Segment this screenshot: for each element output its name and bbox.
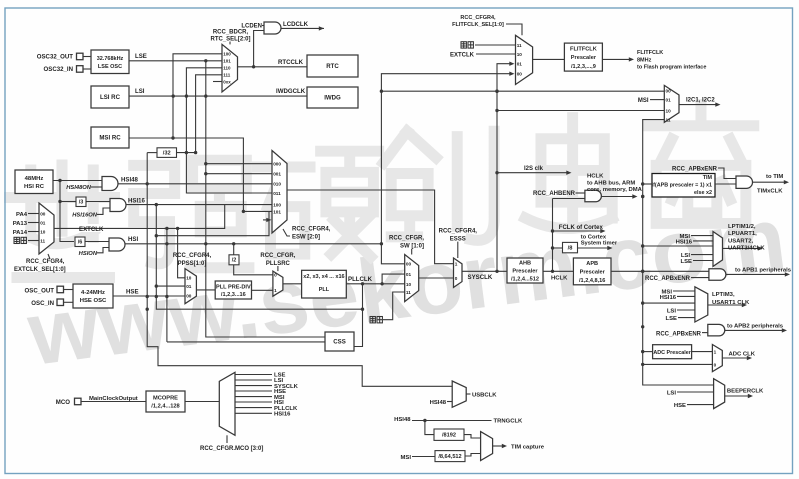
svg-text:00: 00	[186, 294, 192, 299]
wire prediv out	[252, 289, 273, 291]
svg-text:/3: /3	[79, 200, 84, 206]
wire riser HSI48 down-jog to bottom bus	[147, 153, 452, 387]
wire to Cortex timer	[578, 234, 618, 250]
wire V1 up	[381, 74, 511, 244]
wire RTC mux in 111 riser	[196, 75, 222, 153]
mux APB1 clocks	[643, 232, 723, 267]
svg-text:HSE: HSE	[126, 288, 139, 295]
oscillator LSI RC	[91, 86, 129, 108]
svg-text:11: 11	[666, 118, 671, 123]
gate AND APB2EN	[656, 324, 725, 337]
wire HSI16	[126, 198, 272, 207]
pin OSC32_OUT	[37, 53, 91, 60]
svg-text:/2: /2	[232, 258, 237, 264]
wire ESW in 001	[206, 173, 272, 175]
mux BEEPER	[667, 379, 725, 410]
svg-text:LSE: LSE	[135, 53, 147, 60]
svg-text:01: 01	[40, 220, 46, 225]
svg-text:100: 100	[223, 52, 231, 57]
svg-text:RCC_APBxENR: RCC_APBxENR	[645, 276, 691, 282]
oscillator HSE OSC	[73, 284, 113, 308]
wire HSI	[125, 236, 383, 245]
wire 864512 to mux	[465, 454, 481, 457]
svg-text:RCC_CFGR4,: RCC_CFGR4,	[292, 227, 331, 233]
wire PLLSRC out	[283, 283, 302, 285]
svg-text:FCLK of Cortex: FCLK of Cortex	[559, 225, 604, 231]
svg-text:/1,2,4...128: /1,2,4...128	[151, 404, 179, 410]
wire SW out to ESSS0	[419, 277, 454, 279]
svg-text:TIM: TIM	[703, 175, 713, 181]
wire MCOPRE to mux	[185, 401, 219, 403]
svg-text:Prescaler: Prescaler	[512, 269, 538, 275]
prescaler AHB	[507, 258, 543, 283]
svg-text:101: 101	[273, 209, 281, 214]
wire EXTCLK to FLITF10	[450, 52, 516, 58]
svg-text:LSI: LSI	[667, 391, 677, 397]
wire TRNGCLK	[394, 417, 523, 425]
divider /8,64,512	[401, 451, 465, 462]
wire ESW in 000 riser	[206, 61, 325, 337]
wire HSE to PPSS00	[184, 295, 186, 297]
mux TIM capture	[481, 432, 493, 461]
svg-text:HSI48: HSI48	[394, 417, 411, 423]
wire HCLK riser	[552, 199, 554, 272]
svg-text:/8192: /8192	[442, 433, 456, 439]
gate AND HSI16	[72, 199, 126, 219]
wire SYSCLK	[462, 270, 507, 282]
wire CSS input B	[167, 341, 325, 343]
svg-text:RCC_CFGR4,: RCC_CFGR4,	[173, 253, 212, 259]
wire APB out to right	[611, 270, 709, 272]
svg-text:HSI RC: HSI RC	[24, 184, 45, 190]
wire vertical to CSS B	[166, 228, 168, 342]
svg-text:110: 110	[223, 66, 231, 71]
wire step to ESW 101	[156, 211, 269, 235]
prescaler APB	[573, 258, 611, 285]
wire HSI48 feed	[53, 180, 102, 182]
svg-text:HCLK: HCLK	[587, 173, 604, 179]
svg-text:I2C1, I2C2: I2C1, I2C2	[686, 98, 715, 104]
svg-text:10: 10	[186, 276, 192, 281]
svg-text:USBCLK: USBCLK	[472, 392, 497, 398]
svg-text:HSI16ON: HSI16ON	[72, 213, 98, 219]
css CSS	[325, 332, 354, 351]
mux PLLSRC	[260, 253, 295, 296]
svg-text:MSI: MSI	[638, 98, 649, 104]
svg-text:RCC_BDCR,: RCC_BDCR,	[213, 30, 249, 36]
svg-text:System timer: System timer	[581, 241, 618, 247]
divider /6	[75, 237, 85, 247]
svg-text:10: 10	[666, 108, 672, 113]
svg-text:1: 1	[274, 288, 277, 293]
divider /3	[76, 197, 86, 207]
mux I2C	[664, 85, 679, 122]
svg-text:RTC: RTC	[326, 63, 339, 70]
svg-text:OSC32_OUT: OSC32_OUT	[37, 54, 74, 61]
svg-text:HSI48: HSI48	[121, 177, 139, 184]
mux SW	[389, 236, 424, 302]
wire /32 out to ESW 001 riser	[177, 152, 196, 154]
mux FLITFCLK_SEL	[452, 15, 532, 85]
wire TIMxCLK	[753, 174, 790, 194]
wire HSI48	[118, 177, 272, 184]
wire BEEPERCLK	[725, 389, 764, 399]
svg-text:00: 00	[517, 72, 523, 77]
svg-text:EXTCLK: EXTCLK	[79, 226, 104, 233]
svg-text:HSI16: HSI16	[676, 239, 693, 245]
svg-text:FLITFCLK: FLITFCLK	[570, 47, 597, 53]
wire ESW arrow input	[263, 219, 268, 221]
svg-text:LSE OSC: LSE OSC	[98, 64, 122, 70]
svg-text:000: 000	[273, 162, 281, 167]
mux ESSS	[439, 229, 478, 288]
svg-text:00: 00	[40, 211, 46, 216]
svg-text:111: 111	[223, 73, 231, 78]
svg-text:if(APB prescaler = 1) x1: if(APB prescaler = 1) x1	[652, 183, 712, 189]
svg-text:LPTIM1/2,: LPTIM1/2,	[728, 224, 756, 230]
pin OSC_OUT	[25, 286, 73, 294]
mux ESW	[272, 151, 331, 241]
svg-text:LCDEN: LCDEN	[241, 24, 262, 30]
pin OSC_IN	[31, 299, 73, 307]
svg-text:CSS: CSS	[333, 339, 346, 346]
svg-text:/6: /6	[78, 240, 83, 246]
mux PPSS	[173, 253, 212, 304]
mux APB2 clocks	[643, 287, 708, 322]
svg-text:EXTCLK_SEL[1:0]: EXTCLK_SEL[1:0]	[14, 267, 66, 273]
wire EXTCLK	[54, 205, 225, 233]
oscillator 48MHz HSI RC	[15, 170, 53, 194]
wire PLLCLK down to CSS out	[354, 284, 363, 347]
svg-text:00: 00	[406, 262, 412, 267]
svg-text:to Flash program interface: to Flash program interface	[637, 65, 706, 71]
svg-text:0xx: 0xx	[223, 79, 231, 84]
svg-text:LSI: LSI	[135, 88, 145, 95]
wire USBCLK	[466, 392, 497, 398]
svg-text:PLLCLK: PLLCLK	[348, 276, 373, 283]
wire V1 HSI riser	[381, 244, 404, 264]
svg-text:to APB1 peripherals: to APB1 peripherals	[735, 268, 792, 274]
svg-text:OSC_IN: OSC_IN	[31, 300, 54, 307]
wire I2C1 I2C2 out	[679, 98, 721, 107]
wire divider feed down	[60, 181, 74, 242]
svg-text:RCC_CFGR.MCO [3:0]: RCC_CFGR.MCO [3:0]	[200, 446, 263, 452]
wire LSE	[129, 53, 222, 63]
wire bus to I2C11	[643, 120, 665, 184]
divider /32	[157, 148, 177, 158]
svg-text:RCC_APBxENR: RCC_APBxENR	[672, 166, 718, 172]
oscillator LSE OSC	[91, 50, 129, 74]
svg-text:UART3/4CLK: UART3/4CLK	[728, 246, 765, 252]
svg-text:/8: /8	[568, 246, 573, 252]
svg-text:011: 011	[273, 191, 281, 196]
wire MSI	[129, 136, 272, 213]
svg-text:HSI16: HSI16	[274, 412, 291, 418]
wire RTC mux in 110 riser to ESW 011	[186, 68, 272, 193]
wire jinzhi to SW11	[370, 292, 405, 323]
svg-text:HSI: HSI	[128, 236, 138, 243]
svg-text:RTCCLK: RTCCLK	[278, 59, 304, 66]
svg-text:48MHz: 48MHz	[25, 176, 44, 182]
svg-text:IWDG: IWDG	[324, 95, 341, 102]
svg-text:01: 01	[186, 284, 192, 289]
wire ESW out to ESSS	[287, 190, 454, 264]
wire PPSS out	[196, 289, 215, 291]
pin PA4	[16, 212, 39, 218]
svg-text:HSE OSC: HSE OSC	[80, 298, 107, 304]
svg-text:Prescaler: Prescaler	[571, 55, 597, 61]
pin OSC32_IN	[44, 66, 91, 73]
svg-text:10: 10	[517, 52, 523, 57]
gate AND APB1EN	[645, 269, 726, 282]
svg-text:MCOPRE: MCOPRE	[153, 396, 178, 402]
wire FCLK of Cortex	[553, 225, 606, 233]
svg-text:LSI: LSI	[667, 308, 677, 314]
svg-text:EXTCLK: EXTCLK	[450, 52, 475, 58]
oscillator MSI RC	[91, 127, 129, 148]
peripheral RTC	[307, 55, 358, 77]
gate AND AHBENR	[533, 190, 601, 202]
svg-text:1: 1	[714, 350, 717, 355]
svg-text:PLL: PLL	[319, 287, 330, 293]
svg-text:to AHB bus, ARM: to AHB bus, ARM	[587, 180, 635, 186]
svg-text:core, memory, DMA: core, memory, DMA	[587, 187, 643, 193]
divider /8192	[434, 429, 464, 440]
svg-text:32.768kHz: 32.768kHz	[97, 56, 124, 62]
wire RTCCLK	[238, 59, 308, 69]
svg-text:00: 00	[666, 88, 672, 93]
mux MCO	[200, 372, 263, 452]
pin reserved (baoliu)	[14, 237, 39, 243]
wire /32 left to riser	[147, 152, 157, 154]
gate AND LCD	[241, 22, 281, 67]
mux USB	[430, 381, 467, 407]
svg-text:8MHz: 8MHz	[637, 57, 652, 63]
prescaler ADC	[653, 345, 692, 359]
wire to APB1 peripherals	[726, 268, 792, 277]
svg-text:MainClockOutput: MainClockOutput	[89, 396, 138, 402]
svg-text:HSI16: HSI16	[660, 295, 677, 301]
svg-text:to APB2 peripherals: to APB2 peripherals	[727, 324, 784, 330]
svg-text:010: 010	[273, 182, 281, 187]
svg-text:ADC CLK: ADC CLK	[729, 352, 756, 358]
gate AND HSI48	[66, 177, 118, 192]
svg-text:PLL PRE-DIV: PLL PRE-DIV	[216, 284, 251, 290]
svg-text:LPUART1,: LPUART1,	[728, 231, 757, 237]
svg-text:SW [1:0]: SW [1:0]	[400, 244, 424, 250]
svg-text:11: 11	[406, 290, 411, 295]
peripheral IWDG	[307, 87, 358, 108]
svg-text:/1,2,3...16: /1,2,3...16	[221, 292, 246, 298]
svg-text:/32: /32	[163, 151, 171, 157]
svg-text:LCDCLK: LCDCLK	[283, 21, 309, 28]
svg-text:RCC_CFGR4,: RCC_CFGR4,	[460, 15, 496, 21]
svg-text:/1,2,4...512: /1,2,4...512	[511, 277, 539, 283]
svg-text:LSE: LSE	[666, 316, 678, 322]
wire MCO mux inputs	[235, 373, 299, 418]
svg-text:TIMxCLK: TIMxCLK	[757, 188, 783, 194]
wire FLITFCLK out	[602, 50, 706, 70]
svg-text:BEEPERCLK: BEEPERCLK	[727, 389, 764, 395]
svg-text:USART1 CLK: USART1 CLK	[712, 300, 750, 306]
svg-text:LPTIM3,: LPTIM3,	[712, 292, 735, 298]
svg-text:11: 11	[517, 43, 522, 48]
svg-text:001: 001	[273, 172, 281, 177]
prescaler MCOPRE	[146, 391, 185, 412]
svg-text:HSE: HSE	[674, 403, 686, 409]
svg-text:AHB: AHB	[519, 261, 531, 267]
wire PLLCLK branch SW01	[382, 274, 405, 284]
svg-text:SYSCLK: SYSCLK	[468, 274, 493, 281]
wire HCLK out	[587, 173, 644, 198]
wire APB2 clocks out	[708, 292, 750, 307]
gate AND TIM	[672, 166, 753, 188]
svg-text:FLITFCLK: FLITFCLK	[637, 50, 663, 56]
wire MSI to I2C01	[638, 98, 664, 104]
svg-text:OSC32_IN: OSC32_IN	[44, 66, 73, 73]
wire PLLCLK	[346, 276, 404, 285]
divider /8	[563, 242, 578, 252]
svg-text:RCC_CFGR,: RCC_CFGR,	[389, 236, 424, 242]
svg-text:PPSS[1:0]: PPSS[1:0]	[178, 261, 207, 267]
svg-text:else x2: else x2	[694, 190, 712, 196]
svg-text:I2S clk: I2S clk	[524, 166, 544, 172]
mux RTC_SEL	[210, 30, 250, 92]
svg-text:4-24MHz: 4-24MHz	[81, 290, 105, 296]
wire RTC mux in 100 riser	[173, 54, 222, 138]
svg-text:FLITFCLK_SEL[1:0]: FLITFCLK_SEL[1:0]	[452, 22, 504, 28]
wire 8192 to mux	[464, 435, 481, 438]
wire V2 SYSCLK riser	[497, 64, 511, 272]
svg-text:RCC_CFGR4,: RCC_CFGR4,	[439, 229, 478, 235]
prescaler PLL PRE-DIV	[215, 281, 251, 299]
svg-text:/1,2,4,8,16: /1,2,4,8,16	[579, 278, 605, 284]
pin PA13	[13, 221, 39, 227]
svg-text:RCC_AHBENR: RCC_AHBENR	[533, 191, 576, 197]
wire FLITF mux out	[533, 58, 565, 60]
svg-text:100: 100	[273, 202, 281, 207]
svg-text:HSI48: HSI48	[430, 400, 447, 406]
svg-text:01: 01	[666, 98, 672, 103]
wire ADC CLK	[722, 352, 755, 361]
svg-text:ESW [2:0]: ESW [2:0]	[292, 235, 320, 241]
wire I2S clk	[497, 166, 572, 175]
svg-text:/8,64,512: /8,64,512	[438, 454, 461, 460]
prescaler FLITFCLK	[564, 43, 602, 71]
svg-text:1: 1	[455, 262, 458, 267]
svg-text:MSI: MSI	[401, 455, 412, 461]
wire right bus	[643, 184, 714, 385]
svg-text:10: 10	[406, 282, 412, 287]
svg-text:ADC Prescaler: ADC Prescaler	[653, 350, 691, 356]
svg-text:/1,2,3,...,9: /1,2,3,...,9	[571, 64, 596, 70]
svg-text:PA14: PA14	[13, 230, 28, 236]
pin MCO	[56, 396, 146, 406]
pll PLL	[302, 270, 347, 298]
svg-text:HSI16: HSI16	[128, 198, 146, 205]
svg-text:MSI RC: MSI RC	[99, 135, 121, 142]
wire riser HSI16 to bus308	[156, 205, 362, 310]
wire jinzhi to FLITF11	[461, 42, 516, 48]
svg-text:TIM capture: TIM capture	[511, 445, 545, 451]
wire LCDCLK	[281, 21, 324, 31]
svg-text:HCLK: HCLK	[551, 276, 568, 282]
svg-text:LSI RC: LSI RC	[100, 94, 121, 101]
svg-text:HSION: HSION	[79, 251, 98, 257]
svg-text:to TIM: to TIM	[766, 174, 783, 180]
svg-text:0: 0	[274, 273, 277, 278]
wire APB1 clocks out	[723, 224, 766, 252]
svg-text:PA13: PA13	[13, 221, 28, 227]
wire LSI / IWDGCLK	[129, 88, 307, 98]
svg-text:to Cortex: to Cortex	[581, 234, 607, 240]
wire to APB2 peripherals	[725, 324, 787, 333]
svg-text:MCO: MCO	[56, 399, 70, 406]
svg-text:IWDGCLK: IWDGCLK	[276, 88, 306, 95]
svg-text:RCC_APBxENR: RCC_APBxENR	[656, 331, 702, 337]
svg-text:x2, x3, x4 ... x16: x2, x3, x4 ... x16	[303, 274, 344, 280]
wire riser EXTCLK to PPSS10	[178, 228, 185, 277]
wire TIM capture out	[493, 444, 545, 451]
wire HCLK	[543, 271, 573, 281]
svg-text:LSE: LSE	[681, 259, 693, 265]
pin PA14	[13, 230, 39, 236]
wire to I2C10	[497, 110, 664, 112]
svg-text:Prescaler: Prescaler	[580, 270, 606, 276]
svg-text:OSC_OUT: OSC_OUT	[25, 287, 55, 294]
svg-text:PA4: PA4	[16, 212, 28, 218]
svg-text:11: 11	[40, 238, 45, 243]
svg-text:0: 0	[455, 276, 458, 281]
wire RTC mux in 0xx stub	[213, 81, 222, 83]
gate AND HSI	[79, 238, 125, 257]
wire stub PPSS 01	[156, 285, 185, 287]
svg-text:RCC_CFGR,: RCC_CFGR,	[260, 253, 295, 259]
wire HSE	[113, 288, 185, 296]
divider /2	[229, 255, 239, 265]
svg-text:01: 01	[406, 272, 412, 277]
svg-text:101: 101	[223, 59, 231, 64]
svg-text:HSI48ON: HSI48ON	[66, 185, 92, 191]
svg-text:USART2,: USART2,	[728, 238, 754, 244]
mux ADC	[643, 345, 723, 372]
svg-text:0: 0	[714, 362, 717, 367]
wire /2 to PLLSRC0	[234, 265, 273, 275]
wire H2 to I2C00	[381, 90, 664, 92]
svg-text:APB: APB	[586, 261, 598, 267]
svg-text:RCC_CFGR4,: RCC_CFGR4,	[26, 259, 65, 265]
svg-text:01: 01	[517, 62, 523, 67]
svg-text:TRNGCLK: TRNGCLK	[494, 419, 524, 425]
svg-text:10: 10	[40, 229, 46, 234]
mux EXTCLK_SEL	[14, 203, 66, 273]
box TIM multiplier	[641, 174, 715, 198]
